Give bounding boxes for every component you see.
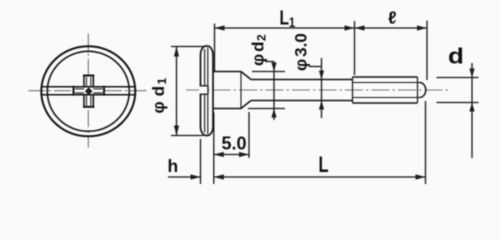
phillips cross left cap bbox=[73, 86, 75, 96]
svg-text:ℓ: ℓ bbox=[388, 8, 397, 28]
5.0 left arrow bbox=[214, 152, 224, 157]
phillips cross intersection mask bbox=[85, 88, 93, 94]
L1/l shared extension line bbox=[354, 21, 356, 75]
phi-d2 top arrow bbox=[271, 63, 276, 72]
L left extension line bbox=[213, 113, 215, 185]
svg-text:h: h bbox=[168, 156, 179, 176]
d top extension line bbox=[437, 77, 479, 79]
thread root top bbox=[353, 82, 420, 84]
thread root bottom bbox=[353, 97, 420, 99]
screw tip arc bbox=[420, 83, 426, 98]
head disc crown line 1 bbox=[204, 49, 206, 133]
L right extension line bbox=[425, 101, 427, 184]
slot notch top edge bbox=[200, 85, 208, 87]
phi-3.0 bottom arrow bbox=[319, 101, 324, 110]
phillips cross horizontal wing bbox=[74, 87, 105, 95]
svg-text:5.0: 5.0 bbox=[222, 134, 247, 154]
slot notch bottom edge bbox=[200, 93, 208, 95]
phi-d2 leader tick bbox=[265, 61, 274, 63]
h arrow tail bbox=[168, 176, 201, 178]
phillips recess inner line bottom-right bbox=[90, 96, 92, 106]
boss cone edge line bbox=[240, 72, 242, 109]
phi-d1 top extension line bbox=[171, 46, 204, 48]
d bottom arrow bbox=[469, 103, 474, 112]
d top arrow bbox=[469, 69, 474, 78]
phillips recess inner line left-bottom bbox=[75, 92, 84, 94]
L left arrow bbox=[214, 174, 224, 179]
svg-text:d: d bbox=[448, 44, 464, 69]
phi-d2 bottom extension line bbox=[248, 108, 285, 110]
phillips cross bottom cap bbox=[83, 106, 94, 108]
l left arrow bbox=[355, 25, 365, 30]
shank top edge bbox=[251, 79, 353, 81]
L1 left extension line bbox=[214, 24, 216, 72]
boss bottom edge bbox=[213, 108, 241, 110]
h arrow bbox=[191, 174, 201, 179]
phillips recess inner line top-right bbox=[90, 77, 92, 86]
L1 left arrow bbox=[215, 25, 225, 30]
thread crest top bbox=[353, 76, 418, 78]
phi-d2 bottom arrow bbox=[271, 109, 276, 118]
svg-text:φ3.0: φ3.0 bbox=[292, 33, 311, 71]
phillips center diamond bbox=[86, 88, 92, 94]
thread crest bottom bbox=[353, 102, 418, 104]
head outer circle (front view) bbox=[41, 46, 135, 136]
L1 dimension line bbox=[215, 27, 355, 29]
slot notch bottom face bbox=[207, 86, 209, 94]
boss chamfer bottom bbox=[241, 101, 251, 109]
phi-d2 dimension line bbox=[273, 62, 275, 121]
thread end line bbox=[417, 77, 419, 103]
front view horizontal centerline bbox=[29, 90, 147, 92]
front view vertical centerline bbox=[87, 34, 89, 148]
svg-text:L: L bbox=[319, 153, 329, 178]
L1 right arrow bbox=[345, 25, 355, 30]
l right extension line bbox=[426, 21, 428, 81]
phillips recess inner line top-left bbox=[86, 77, 88, 86]
phi-3.0 top arrow bbox=[319, 71, 324, 80]
phillips recess inner line left-top bbox=[75, 88, 84, 90]
phillips recess inner line right-bottom bbox=[93, 92, 102, 94]
phi-d2 top extension line bbox=[252, 71, 285, 73]
thread start line bbox=[352, 77, 354, 103]
slot notch mask bbox=[199, 86, 208, 94]
slot upper chord line bbox=[42, 86, 135, 88]
l right arrow bbox=[417, 25, 427, 30]
phi-3.0 dimension line bbox=[321, 58, 323, 118]
5.0 right arrow bbox=[239, 152, 249, 157]
5.0 dimension line bbox=[214, 154, 249, 156]
phillips cross right cap bbox=[103, 86, 105, 96]
phillips cross top cap bbox=[83, 75, 94, 77]
L right arrow bbox=[416, 174, 426, 179]
d dimension line bbox=[471, 63, 473, 158]
phi-d1 bottom arrow bbox=[174, 126, 179, 136]
boss top edge bbox=[213, 71, 241, 73]
h left extension line bbox=[200, 139, 202, 184]
head inner circle (front view) bbox=[47, 51, 129, 131]
phi-d1 top arrow bbox=[174, 47, 179, 57]
phillips recess inner line right-top bbox=[93, 88, 102, 90]
phi-d1 bottom extension line bbox=[171, 135, 204, 137]
head disc crown line 2 bbox=[207, 48, 209, 135]
phillips cross vertical wing bbox=[84, 76, 93, 107]
side view centerline bbox=[186, 89, 451, 91]
phi-3.0 leader tick bbox=[309, 66, 322, 68]
head disc outline (side view) bbox=[201, 46, 214, 136]
5.0 right extension line bbox=[248, 112, 250, 158]
phi-d1 dimension line bbox=[176, 47, 178, 136]
boss chamfer top bbox=[241, 72, 251, 80]
d bottom extension line bbox=[437, 102, 479, 104]
phillips recess inner line bottom-left bbox=[86, 96, 88, 106]
l dimension line bbox=[355, 27, 428, 29]
shank bottom edge bbox=[251, 100, 353, 102]
slot lower chord line bbox=[42, 94, 135, 96]
L dimension line bbox=[214, 176, 426, 178]
